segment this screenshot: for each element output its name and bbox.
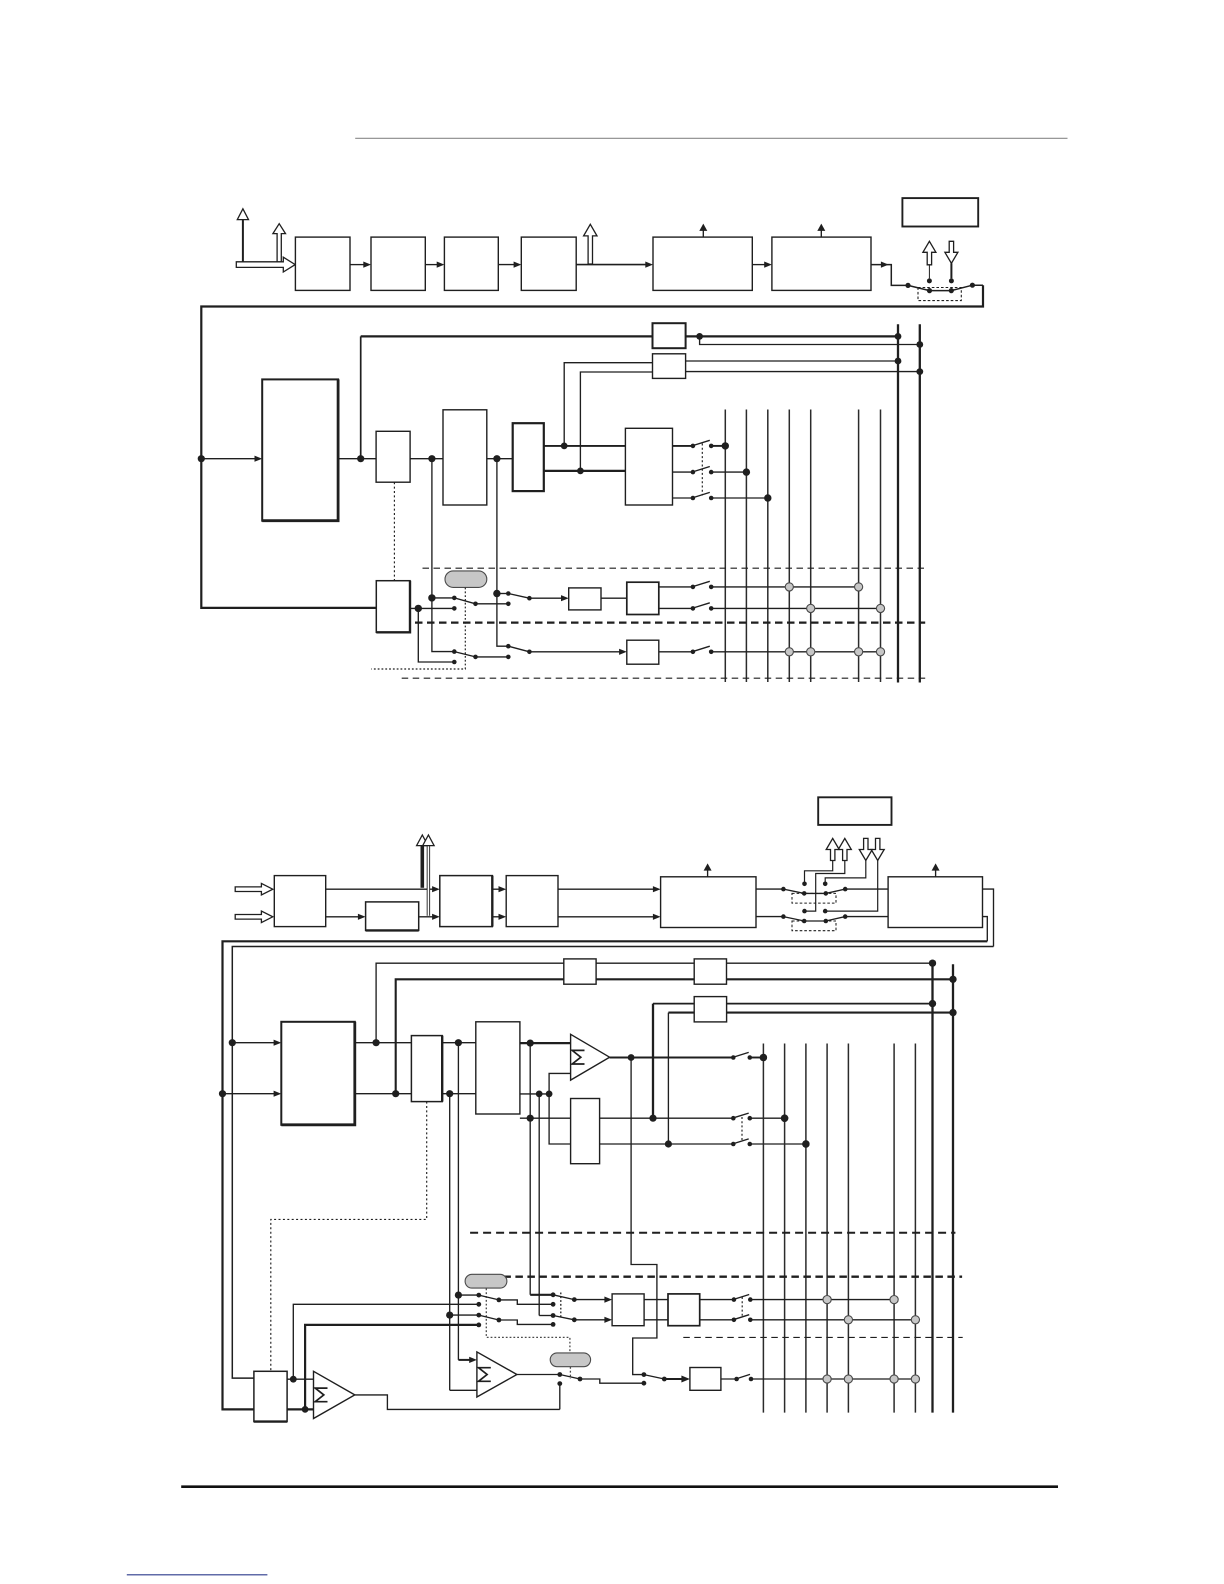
wire M3 to DAC upper [544, 445, 626, 447]
junction dot [373, 1039, 380, 1046]
switch lower stage1 [452, 649, 511, 664]
down data arrow at switch [945, 241, 958, 283]
chain row1 dashed box [792, 893, 836, 903]
mode switch chain [905, 283, 983, 294]
filter block A [569, 588, 601, 610]
block D3 [690, 1368, 721, 1391]
filter block B [627, 582, 659, 614]
filter block C [627, 640, 659, 664]
block G5 [661, 877, 756, 928]
switch chain row1 [756, 887, 888, 896]
elbow to block R input [549, 1094, 571, 1144]
junction dot wire D to R out [665, 1140, 672, 1147]
wire [410, 458, 443, 460]
stub to contact [458, 1294, 478, 1296]
row B feed wire [293, 1304, 479, 1379]
outer loop wire [223, 941, 988, 1409]
crosspoint circles row1 [823, 1296, 831, 1304]
dashed separator 5 thick [491, 1276, 962, 1278]
down cal arrow 1 [825, 838, 872, 883]
block G2 [366, 902, 419, 931]
input clock arrow (vertical line arrow) [237, 209, 248, 262]
B out switch row 1 [659, 581, 859, 589]
dashed separator 4 [470, 1232, 955, 1234]
crosspoint circles row2 [844, 1316, 852, 1324]
bus line 5 [847, 1044, 849, 1413]
junction dot [493, 455, 500, 462]
row D feed wire thick [305, 1325, 479, 1410]
pill2 dotted line [569, 1367, 571, 1379]
bus line 8 thick [897, 324, 899, 682]
bottom right register box [818, 797, 891, 825]
wire A to B [601, 597, 627, 599]
gang dotted link [741, 1297, 743, 1317]
wire G1 to G3 [326, 886, 440, 892]
junction dot [536, 1091, 543, 1098]
Sigma2 output wire [517, 1374, 560, 1376]
chain row2 upper contacts [802, 909, 807, 914]
wire S1 to bus [686, 335, 898, 337]
redraw junction dots over buses [760, 1054, 767, 1061]
block E (white covers outer loop wire) [254, 1371, 287, 1421]
wire N to T upper [442, 1042, 476, 1044]
cal switch B stage1 [476, 1313, 555, 1328]
junction dot [561, 443, 568, 450]
wires D1 to D2 [644, 1299, 668, 1301]
junction dot [446, 1090, 453, 1097]
junction dot [428, 455, 435, 462]
input data arrow (horizontal outline arrow) [236, 257, 295, 272]
main block H1 [281, 1022, 355, 1125]
D2 out switch row1 [700, 1295, 894, 1302]
tap wire to upper contact [432, 597, 454, 599]
tap down to Sigma2 lower [449, 1094, 451, 1391]
junction dot [916, 368, 923, 375]
switch chain row2 [756, 914, 888, 923]
block G3 [440, 876, 493, 927]
switch upper stage2 [493, 590, 569, 602]
feedback riser to switch [559, 1384, 561, 1410]
tap down long [529, 1043, 531, 1295]
wire M1 out [338, 458, 376, 460]
wire up to S1 [360, 336, 362, 458]
junction dot on bus2 [916, 341, 923, 348]
tap down long 2 [538, 1094, 540, 1316]
tap to S2 upper [564, 363, 652, 446]
block 6 output wire [871, 262, 906, 286]
inner loop wire [232, 947, 993, 1379]
tap branch down [432, 598, 454, 652]
wire arrow 3-4 [498, 262, 521, 268]
block G6 [888, 877, 982, 928]
bus line 9 thick [952, 964, 954, 1412]
tall block T [476, 1022, 520, 1114]
wire C horizontal [653, 1003, 933, 1005]
junction dot [577, 468, 584, 475]
junction dot [428, 594, 435, 601]
wire arrow 4-5 [576, 262, 653, 268]
control block W [376, 581, 410, 633]
pill dotted control line [371, 588, 465, 669]
mode switch dashed box [918, 288, 961, 301]
Sigma2 lower input [450, 1389, 477, 1391]
junction dot inner loop [229, 1039, 236, 1046]
junction dot [357, 455, 364, 462]
cal switch B stage2 [539, 1313, 612, 1323]
wire G1 to G2 [326, 914, 366, 920]
block D2 [668, 1294, 700, 1326]
junction dot [455, 1039, 462, 1046]
junction dot [527, 1040, 534, 1047]
switch row3 to bus [731, 1139, 810, 1148]
switch row1 to bus [731, 1052, 767, 1061]
out switch stage1 [557, 1372, 646, 1386]
crosspoint circles row3 [785, 648, 793, 656]
Sigma2 upper input arrow [458, 1357, 477, 1363]
block 6 up arrow [817, 224, 825, 238]
switch upper stage1 [452, 596, 511, 611]
switch row2 to bus [731, 1113, 788, 1122]
arrow to main block H1 upper [232, 1040, 281, 1046]
wire G3 to G4 row1 [492, 886, 506, 892]
junction dot [527, 1115, 534, 1122]
clock up arrow dark [417, 835, 428, 888]
block D1 [612, 1294, 644, 1326]
junction dot outer loop [219, 1090, 226, 1097]
tap up to wire A [376, 963, 932, 1042]
junction dot [649, 1115, 656, 1122]
lower cluster: junction dot row A [455, 1292, 462, 1299]
cal pill 2 [550, 1353, 590, 1367]
up cal arrow 1 [805, 838, 840, 883]
bus line 7 [914, 1044, 916, 1413]
narrow block M1b [376, 431, 410, 482]
up cal arrow 2 [805, 838, 852, 911]
bus line 2 [745, 410, 747, 683]
junction dot on bus [895, 333, 902, 340]
G6 out to outer loop [983, 917, 988, 942]
wire H1 out upper [355, 1042, 412, 1044]
tap up to wire B [396, 979, 953, 1093]
pill dotted path [486, 1289, 570, 1353]
dashed separator 1 [423, 567, 927, 569]
junction dot outer wire [302, 1406, 309, 1413]
block 2 [371, 237, 425, 290]
Sigma3 output elbow [355, 1395, 560, 1410]
G6 up arrow [932, 863, 940, 876]
bus line 2 [784, 1044, 786, 1413]
D2 out switch row2 [700, 1315, 916, 1322]
dashed separator 2 thick [415, 621, 925, 623]
block M3 [513, 423, 544, 491]
Sigma1 output wire [610, 1057, 734, 1059]
block G4 [506, 876, 558, 927]
dotted control line [393, 482, 395, 581]
DAC out switch row 3 [673, 492, 772, 501]
footnote link underline [127, 1574, 268, 1576]
input arrow to main block [201, 456, 262, 462]
summing amp Sigma3 [314, 1371, 355, 1418]
summing amp Sigma1 [571, 1034, 610, 1080]
footer rule [181, 1485, 1058, 1488]
mode pill [445, 571, 487, 588]
register B2 [694, 959, 726, 984]
wire arrow 2-3 [425, 262, 444, 268]
bus line 1 [762, 1044, 764, 1413]
wire S1 tap to second bus [700, 336, 920, 344]
top right register box [902, 198, 978, 226]
DAC out switch row 2 [673, 467, 751, 476]
feedback loop wire top diagram [201, 285, 983, 608]
junction dot [895, 358, 902, 365]
wire T out2 [520, 1093, 549, 1095]
junction dot row C [446, 1312, 453, 1319]
narrow block N [411, 1036, 442, 1102]
bus line 8 thick [931, 963, 933, 1412]
wire G4 to G5 row1 [558, 886, 661, 892]
main block M1 [262, 379, 338, 520]
wire D horizontal [668, 1012, 953, 1014]
block 6 [772, 237, 871, 290]
bus line 3 [767, 410, 769, 683]
wire R out [600, 1143, 734, 1145]
input arrow I [235, 883, 273, 895]
tap wire down [431, 459, 433, 598]
clock up arrow light [423, 835, 434, 916]
wire arrow 1-2 [350, 262, 371, 268]
crosspoint circles row1 [785, 583, 793, 591]
junction dot W out [415, 605, 422, 612]
G5 up arrow [704, 863, 712, 876]
register S2 [653, 354, 686, 379]
wire G4 to G5 row2 [558, 914, 661, 920]
dashed separator 3 [402, 677, 928, 679]
tap down to Sigma2 upper [457, 1043, 459, 1360]
block 5 [653, 237, 752, 290]
input arrow Q [235, 911, 273, 923]
W output wire [410, 607, 454, 609]
junction dot wire D on bus [949, 1009, 956, 1016]
wire [487, 458, 513, 460]
DAC out switch row 1 [673, 440, 730, 449]
crosspoint circles row3 [823, 1375, 831, 1383]
wire G2 to G3 [419, 914, 440, 920]
summing amp Sigma2 [477, 1352, 517, 1397]
block 1 [295, 237, 350, 290]
tap wire down [496, 459, 498, 594]
wire M3 to DAC lower [544, 470, 626, 472]
switch lower stage2 [497, 594, 627, 655]
bus line 6 [893, 1044, 895, 1413]
wire T3 row to switch [653, 1117, 733, 1119]
chain row1 upper contacts [802, 882, 807, 887]
tap to S2 lower [580, 372, 652, 471]
junction dot wire B on bus [949, 976, 956, 983]
gang dotted link [560, 1293, 562, 1318]
node input junction [198, 455, 205, 462]
chain row2 dashed box [792, 921, 836, 931]
elbow to Sigma1 lower input [549, 1073, 571, 1094]
junction dot [392, 1090, 399, 1097]
register B1 [564, 959, 596, 984]
junction dot sigma1 out [628, 1054, 635, 1061]
down cal arrow 2 [825, 838, 884, 911]
E out upper wire [287, 1378, 313, 1380]
wire S2 to bus2 [686, 371, 920, 373]
bus line 1 [724, 410, 726, 683]
wire D feed [667, 1013, 669, 1144]
block 3 [444, 237, 498, 290]
D3 out switch row [721, 1374, 916, 1381]
wire N to T lower [442, 1093, 476, 1095]
junction dot [290, 1376, 297, 1383]
cal feed zigzag down [631, 1058, 657, 1375]
W out branch down [418, 608, 454, 662]
stub to contact [450, 1314, 479, 1316]
up data arrow at switch [923, 241, 936, 283]
cal switch A stage1 [476, 1293, 555, 1307]
register B3 [694, 997, 726, 1022]
cal pill 1 [465, 1274, 507, 1288]
bus line 4 [826, 1044, 828, 1413]
bus line 7 [880, 410, 882, 683]
switch gang dotted link [701, 444, 703, 496]
bus line 9 thick [919, 324, 921, 682]
junction dot [546, 1091, 553, 1098]
block G1 [274, 876, 325, 927]
junction dot wire C on bus [929, 1000, 936, 1007]
register S1 [653, 323, 686, 348]
clock tap up arrow on wire [584, 224, 597, 264]
switch gang dotted link [741, 1117, 743, 1142]
wire S2 to bus [686, 360, 898, 362]
tall block M2 [443, 410, 487, 505]
block 4 [521, 237, 576, 290]
wire T out1 to Sigma1 [520, 1042, 571, 1044]
junction dot S1 out [696, 333, 703, 340]
B out switch row 2 [659, 603, 881, 611]
dotted control path from N [271, 1102, 427, 1372]
dashed separator 6 [683, 1336, 962, 1338]
bus line 4 [788, 410, 790, 683]
out switch stage2 [642, 1372, 690, 1382]
wire G3 to G4 row2 [492, 914, 506, 920]
wire C feed [652, 1004, 654, 1119]
wire arrow 5-6 [752, 262, 772, 268]
wire T out3 [520, 1117, 653, 1119]
bus line 5 [810, 410, 812, 683]
header rule [355, 137, 1067, 139]
bus line 3 [805, 1044, 807, 1413]
G6 out to inner loop [983, 889, 994, 946]
DAC block M4 [625, 428, 672, 505]
block R [571, 1099, 600, 1164]
input enable arrow (vertical outline arrow) [273, 224, 286, 262]
junction dot wire A on bus [929, 960, 936, 967]
cal switch A stage2 [530, 1292, 612, 1302]
block 5 up arrow [699, 224, 707, 238]
crosspoint circles row2 [807, 604, 815, 612]
bus line 6 [858, 410, 860, 683]
C out switch row [659, 646, 881, 654]
wire H1 out lower [355, 1093, 412, 1095]
arrow to main block H1 lower [223, 1091, 282, 1097]
